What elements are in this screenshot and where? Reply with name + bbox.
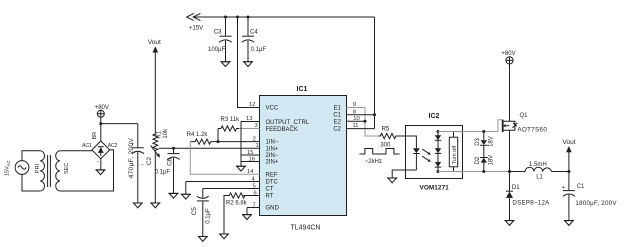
turn off block bbox=[449, 132, 458, 172]
svg-text:R3 11k: R3 11k bbox=[221, 117, 241, 123]
node 1IN- junction bbox=[217, 140, 220, 143]
ground DTC bbox=[181, 193, 191, 195]
wire source to switch node bbox=[509, 130, 511, 171]
wire DTC down bbox=[185, 182, 187, 195]
wire +80V port to bridge top bbox=[100, 117, 102, 141]
wire +15V drop to C1 C2 outputs bbox=[374, 17, 376, 129]
wire pins 13 15 16 to ground bbox=[240, 122, 242, 167]
resistor R5 300 bbox=[378, 127, 406, 149]
svg-text:GND: GND bbox=[266, 206, 280, 212]
node photodiode bottom bbox=[437, 170, 440, 173]
ground C4 bbox=[243, 61, 253, 63]
ground C1 bbox=[564, 220, 574, 222]
wire 2IN- pin 15 bbox=[241, 154, 260, 156]
svg-text:1: 1 bbox=[255, 143, 258, 149]
svg-text:CT: CT bbox=[266, 187, 274, 193]
svg-text:100µF: 100µF bbox=[208, 47, 225, 53]
svg-text:BR: BR bbox=[92, 132, 98, 140]
potentiometer R1 10k bbox=[151, 128, 169, 203]
svg-text:VCC: VCC bbox=[266, 106, 279, 112]
node C6 tap bbox=[172, 147, 175, 150]
capacitor C3 100uF bbox=[208, 17, 232, 62]
svg-text:0.1µF: 0.1µF bbox=[155, 170, 171, 176]
power port +80V left bbox=[95, 105, 109, 117]
wire VCC feed pin 12 bbox=[238, 17, 260, 108]
ac source 15VAC bbox=[5, 160, 29, 176]
wire CT pin 5 bbox=[203, 188, 260, 190]
svg-text:C2: C2 bbox=[333, 127, 341, 133]
wire drain from +80V bbox=[509, 65, 511, 122]
node rail C3 bbox=[224, 16, 227, 19]
svg-text:18V: 18V bbox=[488, 136, 494, 147]
svg-text:E2: E2 bbox=[334, 120, 342, 126]
node Vout sense bbox=[148, 39, 161, 135]
svg-text:D3: D3 bbox=[475, 137, 481, 145]
capacitor C2 470uF 200V bbox=[128, 124, 153, 203]
node zener top bbox=[482, 130, 485, 133]
wire secondary top to bridge AC1 bbox=[60, 150, 92, 152]
wire led cathode return bbox=[392, 170, 416, 178]
svg-text:AC2: AC2 bbox=[108, 143, 118, 149]
svg-text:R1: R1 bbox=[157, 130, 163, 138]
ground bridge bbox=[96, 169, 106, 171]
svg-text:1.5mH: 1.5mH bbox=[529, 162, 547, 168]
svg-text:10k: 10k bbox=[163, 128, 169, 139]
resistor R4 1.2k bbox=[187, 132, 218, 144]
ground R1 bbox=[150, 202, 160, 204]
svg-text:DSEP8−12A: DSEP8−12A bbox=[512, 199, 550, 206]
photodiode stack IC2 bbox=[435, 132, 441, 172]
wire DTC pin 4 bbox=[186, 181, 260, 183]
led emission arrows bbox=[422, 149, 431, 162]
ground C6 bbox=[169, 192, 179, 194]
svg-text:−: − bbox=[141, 162, 144, 168]
ground C3 bbox=[221, 61, 231, 63]
svg-text:2IN+: 2IN+ bbox=[266, 160, 279, 166]
wire +15V rail bbox=[194, 16, 375, 18]
wire bridge bottom bbox=[100, 159, 102, 170]
wire gate net to Q1 bbox=[462, 120, 502, 132]
svg-text:+: + bbox=[562, 185, 565, 191]
ground C2 bbox=[133, 202, 143, 204]
capacitor C5 0.1uF bbox=[191, 189, 212, 237]
svg-text:C5: C5 bbox=[191, 207, 198, 216]
svg-text:18V: 18V bbox=[488, 155, 494, 166]
transformer T1 primary PRI bbox=[35, 151, 44, 191]
svg-text:R5: R5 bbox=[382, 127, 390, 133]
bridge rectifier BR bbox=[82, 132, 117, 166]
wire E2 pin 10 bbox=[346, 120, 365, 122]
svg-text:C6: C6 bbox=[168, 157, 174, 165]
svg-text:REF: REF bbox=[266, 173, 278, 179]
svg-text:L1: L1 bbox=[536, 174, 543, 180]
svg-text:Vout: Vout bbox=[563, 139, 576, 146]
ground led return bbox=[387, 177, 397, 179]
wire secondary bottom to bridge AC2 bbox=[60, 150, 114, 191]
svg-text:+15V: +15V bbox=[189, 26, 203, 32]
svg-text:IC1: IC1 bbox=[297, 86, 308, 93]
opto ic IC2 VOM1271 bbox=[406, 113, 463, 192]
wire output ctrl pin 13 bbox=[241, 121, 260, 123]
capacitor C6 0.1uF bbox=[155, 148, 180, 193]
svg-text:E1: E1 bbox=[334, 106, 342, 112]
svg-text:D2: D2 bbox=[475, 156, 481, 164]
svg-text:C3: C3 bbox=[214, 29, 222, 35]
svg-text:0.1µF: 0.1µF bbox=[206, 208, 212, 224]
ground pins 13 15 16 bbox=[236, 165, 246, 167]
wire 2IN+ pin 16 bbox=[241, 161, 260, 163]
wire +80V rail to C2 bbox=[101, 123, 138, 125]
svg-text:DTC: DTC bbox=[266, 180, 279, 186]
svg-text:AC1: AC1 bbox=[82, 143, 92, 149]
svg-text:AOT7S60: AOT7S60 bbox=[518, 127, 548, 134]
inductor L1 1.5mH bbox=[510, 162, 569, 181]
svg-text:FEEDBACK: FEEDBACK bbox=[266, 127, 298, 133]
svg-text:~2kHz: ~2kHz bbox=[365, 159, 382, 165]
ground R2 bbox=[219, 233, 229, 235]
svg-text:VOM1271: VOM1271 bbox=[420, 185, 450, 192]
node output bbox=[567, 170, 570, 173]
svg-text:Q1: Q1 bbox=[520, 113, 529, 119]
wire R4 to REF pin 14 bbox=[190, 142, 259, 175]
capacitor C4 0.1uF bbox=[242, 17, 267, 62]
wire E1 E2 to R5 bbox=[365, 108, 378, 137]
wire C1 pin 8 bbox=[346, 114, 374, 116]
wire feedback pin 3 bbox=[239, 128, 260, 130]
svg-text:15VAC: 15VAC bbox=[5, 160, 11, 176]
svg-text:OUTPUT_CTRL: OUTPUT_CTRL bbox=[266, 120, 310, 126]
node rail C4 bbox=[247, 16, 250, 19]
ground C5 bbox=[198, 236, 208, 238]
svg-text:R4 1.2k: R4 1.2k bbox=[187, 132, 209, 138]
wire ac source top lead bbox=[22, 151, 40, 161]
node E2 junction bbox=[364, 120, 367, 123]
node photodiode top bbox=[437, 130, 440, 133]
wire C2 pin 11 bbox=[346, 128, 374, 130]
diode D1 DSEP8-12A bbox=[506, 172, 550, 221]
svg-text:C1: C1 bbox=[333, 113, 341, 119]
node C1 +15V bbox=[373, 113, 376, 116]
svg-text:0.1µF: 0.1µF bbox=[251, 47, 267, 53]
transformer T1 secondary SEC bbox=[56, 151, 70, 191]
svg-text:1IN−: 1IN− bbox=[266, 140, 279, 146]
svg-text:1800µF, 200V: 1800µF, 200V bbox=[575, 200, 617, 207]
wire ac source bottom lead bbox=[22, 174, 40, 191]
wire GND pin 7 bbox=[247, 208, 260, 215]
resistor R2 6.8k bbox=[224, 193, 260, 234]
svg-text:PRI: PRI bbox=[35, 164, 41, 174]
ground D1 bbox=[505, 220, 515, 222]
ground pin 7 bbox=[242, 214, 252, 216]
wire wiper to 1IN+ pin 1 bbox=[159, 147, 260, 149]
svg-text:1IN+: 1IN+ bbox=[266, 147, 279, 153]
svg-text:C4: C4 bbox=[250, 29, 258, 35]
svg-text:IC2: IC2 bbox=[429, 113, 440, 120]
svg-text:D1: D1 bbox=[512, 185, 520, 191]
svg-text:C1: C1 bbox=[577, 184, 585, 190]
capacitor C1 1800uF 200V bbox=[562, 172, 618, 221]
resistor R3 11k bbox=[218, 117, 240, 131]
wire E1 pin 9 bbox=[346, 107, 365, 109]
wire source net to switch node bbox=[462, 171, 510, 173]
node bridge plus junction bbox=[99, 122, 102, 125]
node rail VCC bbox=[236, 16, 239, 19]
node switch node bbox=[508, 170, 511, 173]
power port +80V right bbox=[501, 51, 515, 64]
svg-text:Turn off: Turn off bbox=[452, 145, 458, 164]
wire source net inside IC2 bbox=[438, 171, 462, 173]
svg-text:RT: RT bbox=[266, 194, 274, 200]
waveform symbol ~2kHz bbox=[360, 149, 400, 165]
zener D3 18V bbox=[475, 132, 495, 147]
node Vout arrow bbox=[563, 139, 576, 172]
svg-text:12: 12 bbox=[249, 102, 255, 108]
node zener bottom bbox=[482, 170, 485, 173]
wire gate net inside IC2 bbox=[438, 131, 462, 133]
svg-text:+80V: +80V bbox=[501, 51, 515, 57]
svg-text:Vout: Vout bbox=[148, 39, 161, 46]
ic IC1 TL494CN bbox=[260, 86, 347, 231]
zener D2 18V bbox=[475, 145, 495, 171]
svg-text:R2 6.8k: R2 6.8k bbox=[226, 200, 248, 206]
svg-text:−: − bbox=[97, 160, 100, 166]
transformer core bbox=[48, 155, 51, 187]
svg-text:470µF, 200V: 470µF, 200V bbox=[128, 138, 135, 179]
svg-text:2IN−: 2IN− bbox=[266, 153, 279, 159]
off-page connector +15V bbox=[187, 13, 204, 31]
wire 1IN- pin 2 bbox=[218, 141, 260, 143]
svg-text:TL494CN: TL494CN bbox=[291, 224, 321, 231]
svg-text:C2: C2 bbox=[146, 157, 153, 166]
led inside IC2 bbox=[406, 136, 420, 170]
transistor Q1 AOT7S60 bbox=[503, 113, 548, 133]
svg-text:SEC: SEC bbox=[64, 163, 70, 174]
wire R3 left down to 1IN- node bbox=[217, 129, 219, 142]
svg-text:300: 300 bbox=[380, 142, 391, 148]
